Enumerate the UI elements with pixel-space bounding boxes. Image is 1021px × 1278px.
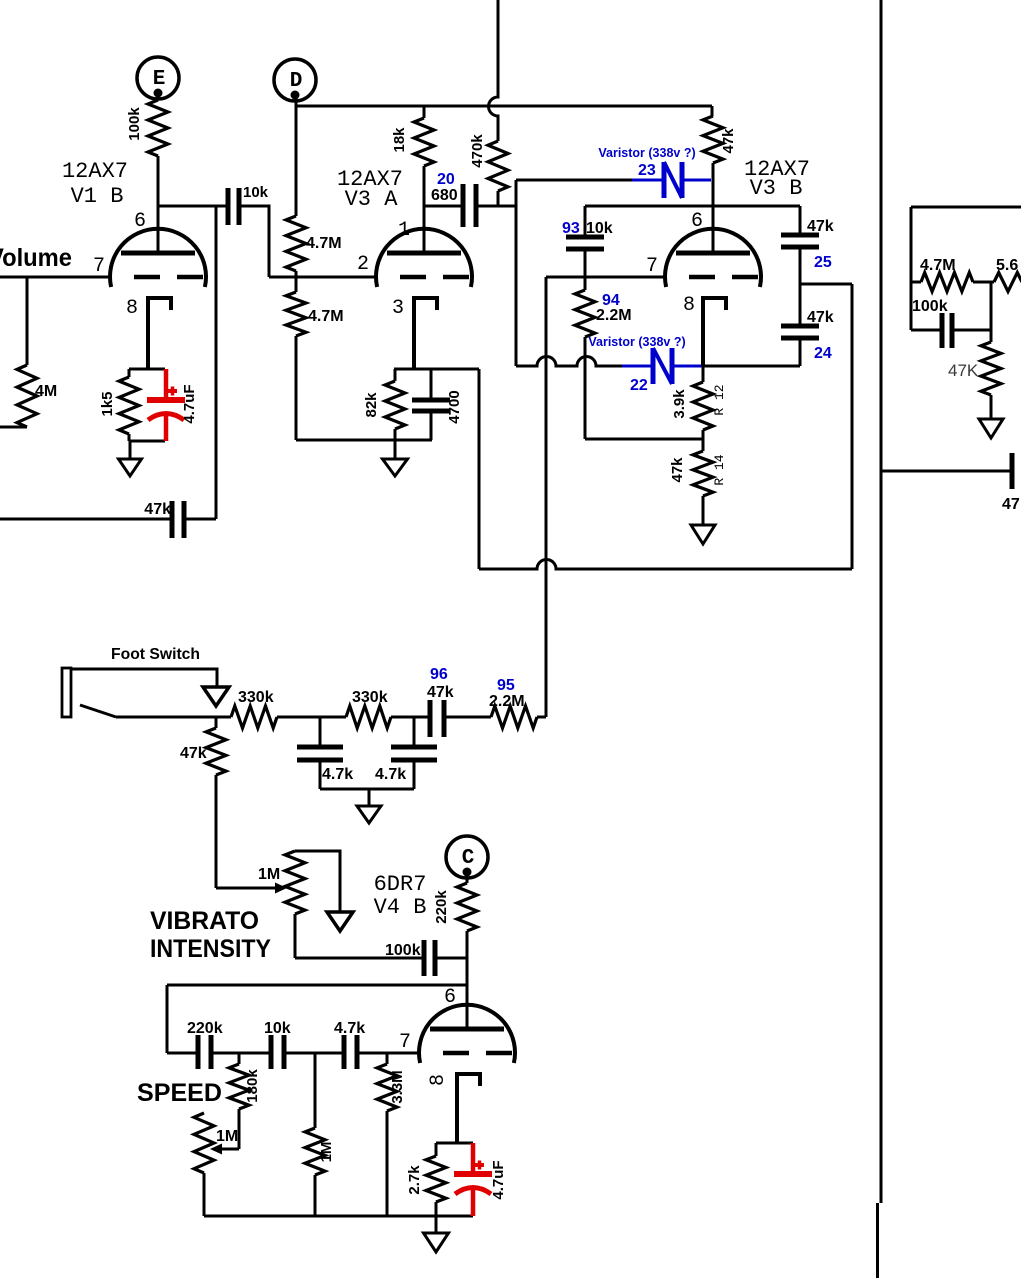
svg-text:4.7M: 4.7M bbox=[306, 235, 342, 252]
svg-text:1M: 1M bbox=[318, 1142, 335, 1163]
svg-text:8: 8 bbox=[427, 1074, 450, 1086]
svg-text:47k: 47k bbox=[807, 309, 834, 326]
svg-text:E: E bbox=[153, 68, 166, 91]
svg-text:7: 7 bbox=[93, 255, 105, 278]
svg-text:6DR7: 6DR7 bbox=[374, 872, 427, 897]
svg-text:D: D bbox=[290, 70, 303, 93]
svg-text:47k: 47k bbox=[720, 128, 737, 154]
svg-text:R 12: R 12 bbox=[712, 384, 727, 415]
svg-text:1: 1 bbox=[398, 219, 410, 242]
svg-text:2.7k: 2.7k bbox=[406, 1165, 423, 1195]
svg-text:330k: 330k bbox=[238, 689, 274, 706]
svg-text:22: 22 bbox=[630, 377, 648, 394]
svg-text:47k: 47k bbox=[669, 457, 686, 483]
svg-text:1M: 1M bbox=[216, 1128, 238, 1145]
svg-text:23: 23 bbox=[638, 162, 656, 179]
svg-text:VIBRATO: VIBRATO bbox=[150, 907, 259, 935]
svg-text:R 14: R 14 bbox=[712, 454, 727, 485]
svg-text:220k: 220k bbox=[433, 890, 450, 924]
svg-text:Varistor (338v ?): Varistor (338v ?) bbox=[588, 335, 685, 349]
svg-text:100k: 100k bbox=[126, 107, 143, 141]
svg-text:2.2M: 2.2M bbox=[596, 307, 632, 324]
svg-text:82k: 82k bbox=[363, 392, 380, 418]
svg-text:100k: 100k bbox=[385, 942, 421, 959]
svg-text:V1 B: V1 B bbox=[71, 184, 124, 209]
svg-text:10k: 10k bbox=[264, 1020, 291, 1037]
svg-text:8: 8 bbox=[683, 294, 695, 317]
svg-text:4M: 4M bbox=[35, 383, 57, 400]
svg-text:3: 3 bbox=[392, 297, 404, 320]
svg-text:4.7k: 4.7k bbox=[334, 1020, 365, 1037]
svg-text:47k: 47k bbox=[144, 501, 171, 518]
svg-text:10k: 10k bbox=[243, 184, 269, 201]
svg-text:47k: 47k bbox=[807, 218, 834, 235]
svg-text:INTENSITY: INTENSITY bbox=[150, 935, 271, 963]
svg-text:7: 7 bbox=[646, 255, 658, 278]
svg-text:10k: 10k bbox=[586, 220, 613, 237]
svg-text:330k: 330k bbox=[352, 689, 388, 706]
svg-text:47k: 47k bbox=[180, 745, 207, 762]
svg-text:2.2M: 2.2M bbox=[489, 693, 525, 710]
svg-text:8: 8 bbox=[126, 297, 138, 320]
svg-text:4700: 4700 bbox=[446, 390, 463, 423]
svg-text:7: 7 bbox=[399, 1031, 411, 1054]
svg-text:4.7k: 4.7k bbox=[375, 766, 406, 783]
svg-text:47: 47 bbox=[1002, 496, 1020, 513]
svg-text:1M: 1M bbox=[258, 866, 280, 883]
svg-text:V3 A: V3 A bbox=[345, 187, 399, 212]
svg-text:Varistor (338v ?): Varistor (338v ?) bbox=[598, 146, 695, 160]
svg-text:4.7uF: 4.7uF bbox=[490, 1160, 507, 1199]
svg-text:93: 93 bbox=[562, 220, 580, 237]
svg-text:470k: 470k bbox=[469, 134, 486, 168]
svg-text:680: 680 bbox=[431, 187, 458, 204]
svg-text:2: 2 bbox=[357, 253, 369, 276]
svg-text:4.7uF: 4.7uF bbox=[181, 384, 198, 423]
svg-text:4.7M: 4.7M bbox=[920, 257, 956, 274]
svg-text:24: 24 bbox=[814, 345, 832, 362]
svg-text:47k: 47k bbox=[427, 684, 454, 701]
svg-text:100k: 100k bbox=[912, 298, 948, 315]
svg-text:SPEED: SPEED bbox=[137, 1079, 222, 1107]
svg-text:6: 6 bbox=[691, 210, 703, 233]
svg-text:V4 B: V4 B bbox=[374, 895, 427, 920]
svg-text:4.7k: 4.7k bbox=[322, 766, 353, 783]
svg-text:V3 B: V3 B bbox=[750, 176, 803, 201]
svg-text:6: 6 bbox=[444, 986, 456, 1009]
svg-text:Volume: Volume bbox=[0, 244, 72, 272]
svg-text:Foot Switch: Foot Switch bbox=[111, 646, 200, 663]
svg-text:12AX7: 12AX7 bbox=[62, 159, 128, 184]
svg-text:95: 95 bbox=[497, 677, 515, 694]
svg-text:25: 25 bbox=[814, 254, 832, 271]
svg-text:180k: 180k bbox=[244, 1069, 261, 1103]
svg-text:C: C bbox=[462, 847, 475, 870]
svg-text:20: 20 bbox=[437, 171, 455, 188]
svg-text:1k5: 1k5 bbox=[99, 391, 116, 416]
svg-text:3.3M: 3.3M bbox=[389, 1070, 406, 1103]
svg-text:4.7M: 4.7M bbox=[308, 308, 344, 325]
svg-text:47K: 47K bbox=[948, 361, 979, 380]
svg-text:18k: 18k bbox=[391, 127, 408, 153]
svg-text:220k: 220k bbox=[187, 1020, 223, 1037]
svg-text:3.9k: 3.9k bbox=[671, 389, 688, 419]
svg-text:6: 6 bbox=[134, 210, 146, 233]
svg-text:5.6: 5.6 bbox=[996, 257, 1018, 274]
svg-text:96: 96 bbox=[430, 666, 448, 683]
